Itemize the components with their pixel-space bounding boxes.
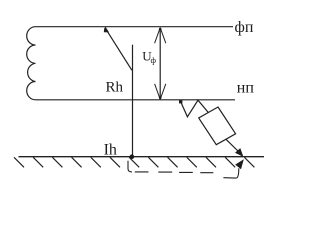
arrowhead: earth current return xyxy=(235,159,244,169)
arrowhead: fault current into ground xyxy=(235,148,243,157)
Uf arrow top head xyxy=(155,28,166,44)
coil L1 (source winding) xyxy=(27,27,36,100)
resistor Rz (grounding resistance box) xyxy=(199,107,236,145)
zigzag fault lead xyxy=(181,100,209,117)
svg-text:нп: нп xyxy=(237,80,255,97)
wire: touch diagonal to phase xyxy=(107,31,132,70)
wire: resistor to ground xyxy=(226,139,240,152)
ground hatching xyxy=(14,157,254,167)
wire: phase conductor (top) xyxy=(36,26,234,28)
node: Uf arrow tip dots xyxy=(159,28,162,31)
arrowhead: touch point on phase wire xyxy=(104,27,109,33)
svg-text:ф: ф xyxy=(151,55,157,65)
wire: neutral conductor (bottom) xyxy=(36,99,236,101)
node: junction on neutral wire xyxy=(179,100,182,103)
svg-text:фп: фп xyxy=(235,19,254,36)
dashed earth-current path xyxy=(128,161,132,172)
ground line xyxy=(19,156,265,158)
node: junction at ground (Ih) xyxy=(130,154,135,159)
wire: body vertical (Rh branch) xyxy=(132,45,134,157)
svg-text:Ih: Ih xyxy=(104,142,117,159)
svg-text:Rh: Rh xyxy=(106,79,124,95)
Uf arrow shaft xyxy=(159,28,161,99)
Uf arrow bottom head xyxy=(155,84,166,100)
